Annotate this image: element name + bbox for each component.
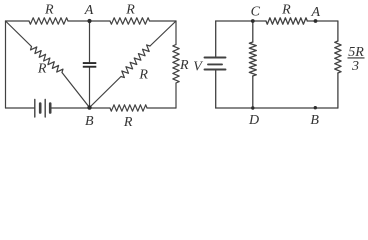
resistor (middle, C-D) [249, 42, 256, 76]
wire: right edge below resistor [337, 73, 339, 108]
svg-text:R: R [138, 68, 148, 83]
svg-text:A: A [311, 5, 321, 20]
resistor R (top-right) [110, 18, 150, 24]
wire + resistor R (right diagonal) [150, 21, 176, 46]
fraction bar of 5R/3 [348, 57, 365, 59]
svg-text:R: R [179, 58, 189, 73]
svg-text:B: B [310, 113, 319, 128]
capacitor plates [83, 62, 97, 64]
resistor 5R/3 (right edge) [335, 41, 341, 73]
wire: middle branch below resistor [252, 76, 254, 108]
resistor R (top-left) [29, 18, 68, 24]
wire: right circuit bottom side [216, 107, 338, 109]
RIGHT CIRCUIT [205, 18, 342, 108]
svg-text:C: C [251, 4, 261, 19]
svg-text:R: R [44, 3, 54, 18]
wire: right edge above resistor [337, 21, 339, 41]
wire: left edge above battery [215, 21, 217, 57]
svg-text:R: R [281, 3, 291, 18]
svg-text:V: V [193, 59, 203, 74]
labels left circuit [37, 3, 189, 130]
labels right circuit [193, 3, 364, 129]
svg-text:R: R [125, 3, 135, 18]
resistor R (bottom-right) [90, 107, 111, 109]
node C [251, 19, 255, 23]
wire: left circuit top side segments [6, 20, 30, 22]
resistor R (right circuit top) [266, 18, 307, 24]
svg-text:B: B [85, 114, 94, 129]
wire: middle branch above resistor [252, 21, 254, 42]
wire: middle branch below capacitor [89, 68, 91, 108]
svg-text:A: A [84, 3, 94, 18]
wire + resistor R (left diagonal) [6, 21, 32, 47]
node B (left circuit) [87, 105, 91, 109]
wire: left edge below battery [215, 70, 217, 108]
svg-text:R: R [37, 62, 47, 77]
node A (left circuit) [87, 19, 91, 23]
node A (right circuit) [314, 19, 318, 23]
wire: battery to node B [52, 107, 90, 109]
svg-text:3: 3 [351, 59, 359, 74]
node B (right circuit) [314, 106, 317, 109]
battery (left circuit) [34, 100, 36, 118]
svg-text:R: R [123, 115, 133, 130]
battery V (right circuit) [205, 57, 226, 59]
wire: left circuit bottom, left of battery [6, 107, 35, 109]
wire: left circuit left edge [5, 21, 7, 108]
resistor R (right edge, vertical) [175, 21, 177, 45]
svg-text:D: D [248, 113, 259, 128]
wire: middle branch above capacitor [89, 21, 91, 62]
node D [251, 106, 254, 109]
wire: right circuit top side [216, 20, 266, 22]
